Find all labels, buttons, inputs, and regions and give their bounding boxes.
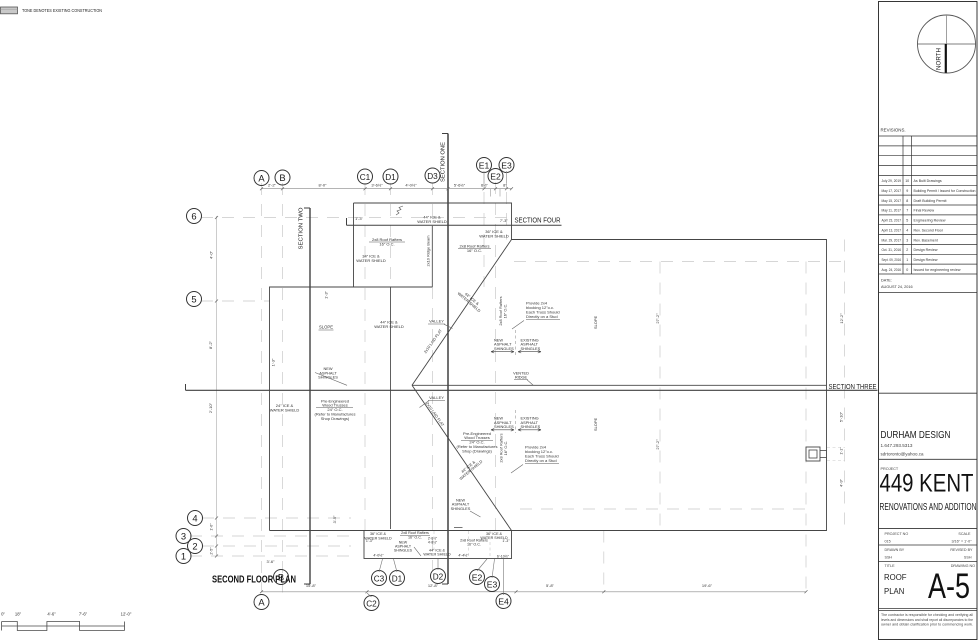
svg-text:SHINGLES: SHINGLES [494, 424, 514, 429]
grid marker A top [254, 171, 269, 186]
svg-text:4'-4½": 4'-4½" [458, 554, 469, 558]
svg-text:6'-10½": 6'-10½" [497, 554, 510, 558]
grid row 2 (dashed) [202, 545, 351, 547]
grid line D1 (dashed top) [390, 183, 392, 287]
svg-text:12'-0": 12'-0" [121, 612, 132, 617]
grid marker A bottom [254, 595, 269, 610]
svg-text:449 KENT: 449 KENT [880, 470, 974, 498]
grid marker D1 bottom [390, 571, 405, 586]
svg-text:SECTION FOUR: SECTION FOUR [515, 216, 561, 225]
svg-text:B: B [279, 172, 285, 183]
svg-text:C3: C3 [374, 574, 385, 583]
svg-text:PROJECT NO: PROJECT NO [885, 532, 909, 536]
svg-text:VALLEY: VALLEY [429, 395, 444, 400]
grid marker E3 top [499, 158, 514, 173]
svg-text:27'-2": 27'-2" [655, 439, 660, 450]
svg-text:2: 2 [192, 540, 197, 551]
title block outer border [879, 2, 978, 640]
svg-text:SSH: SSH [964, 556, 972, 560]
svg-text:SECTION TWO: SECTION TWO [299, 207, 305, 249]
svg-text:SECTION THREE: SECTION THREE [829, 382, 877, 391]
svg-text:4'-0": 4'-0" [209, 250, 214, 259]
strip interior dashes [433, 531, 435, 558]
svg-text:SHINGLES: SHINGLES [394, 548, 413, 552]
bottom eave strip [364, 531, 512, 559]
svg-text:3: 3 [906, 238, 908, 242]
grid marker C1 [358, 169, 373, 184]
svg-text:Directly on a Stud: Directly on a Stud [526, 314, 558, 319]
break squiggle [396, 206, 403, 215]
svg-text:A: A [258, 596, 265, 607]
44 ice note on lower diagonal [455, 455, 483, 481]
bottom marker leaders [379, 559, 383, 572]
svg-text:WATER SHIELD: WATER SHIELD [479, 234, 509, 239]
svg-text:July 29, 2019: July 29, 2019 [882, 179, 902, 183]
svg-text:SCALE: SCALE [958, 532, 971, 536]
svg-text:D3: D3 [427, 172, 438, 181]
svg-text:REVISED BY: REVISED BY [950, 548, 973, 552]
svg-text:7: 7 [906, 209, 908, 213]
svg-text:REVISIONS.: REVISIONS. [881, 128, 906, 133]
svg-text:1'-3": 1'-3" [324, 291, 329, 299]
svg-text:2'-5": 2'-5" [210, 547, 214, 555]
svg-text:8'-0": 8'-0" [319, 182, 328, 187]
svg-text:DURHAM DESIGN: DURHAM DESIGN [881, 429, 951, 441]
left wing outline [270, 287, 433, 531]
svg-text:Building Permit / Issued for C: Building Permit / Issued for Constructio… [914, 189, 976, 193]
svg-text:5: 5 [191, 293, 196, 304]
svg-text:SHINGLES: SHINGLES [494, 346, 514, 351]
svg-text:3'-5": 3'-5" [332, 515, 337, 523]
svg-text:1: 1 [906, 258, 908, 262]
grid marker E1 [477, 158, 492, 173]
svg-text:4'-9": 4'-9" [839, 478, 844, 487]
svg-text:C1: C1 [360, 173, 371, 182]
svg-text:5: 5 [906, 219, 908, 223]
svg-text:4: 4 [192, 512, 197, 523]
svg-text:1'-6": 1'-6" [210, 523, 214, 531]
svg-text:SHINGLES: SHINGLES [521, 346, 541, 351]
svg-text:Final Review: Final Review [914, 209, 935, 213]
svg-text:D2: D2 [433, 572, 444, 581]
svg-text:7'-3": 7'-3" [500, 218, 508, 223]
svg-text:Oct. 31, 2016: Oct. 31, 2016 [882, 248, 902, 252]
svg-text:1'-1": 1'-1" [840, 447, 844, 455]
dashed horizontals in big rect [514, 261, 845, 263]
svg-text:B: B [278, 571, 284, 582]
grid line E2 (dashed) [495, 182, 497, 531]
grid marker D2 [431, 569, 446, 584]
grid line D3 (dashed) [432, 183, 434, 226]
svg-text:E3: E3 [501, 161, 512, 170]
grid line E3 (dashed) [506, 171, 508, 240]
svg-text:DATE:: DATE: [881, 279, 892, 283]
svg-text:2x10 Ridge Beam: 2x10 Ridge Beam [426, 236, 431, 267]
graphic scale bar [2, 622, 125, 631]
svg-text:E3: E3 [487, 580, 498, 589]
section three line [186, 389, 878, 391]
svg-text:WATER SHIELD: WATER SHIELD [374, 324, 404, 329]
svg-text:PLAN: PLAN [884, 587, 904, 596]
svg-text:Rev. Basement: Rev. Basement [914, 238, 938, 242]
svg-text:SHINGLES: SHINGLES [451, 506, 471, 511]
grid row 3 (dashed) [190, 535, 351, 537]
svg-text:Rev. Second Floor: Rev. Second Floor [914, 228, 944, 232]
svg-text:DRAWN BY: DRAWN BY [885, 548, 905, 552]
grid marker 5 [187, 292, 202, 307]
grid marker B bottom [274, 570, 289, 585]
grid row 6 (dashed) [201, 217, 511, 219]
grid marker 6 [187, 209, 202, 224]
svg-text:8'-2": 8'-2" [208, 340, 213, 349]
svg-text:4'-0½": 4'-0½" [373, 554, 384, 558]
interior dashed verticals big rect [659, 262, 661, 531]
svg-text:5'-8": 5'-8" [546, 583, 555, 588]
svg-text:2'-2": 2'-2" [268, 182, 277, 187]
svg-text:9: 9 [906, 189, 908, 193]
svg-text:4'-8½": 4'-8½" [428, 541, 438, 545]
grid marker E4 [496, 594, 511, 609]
svg-text:May 17, 2017: May 17, 2017 [882, 189, 902, 193]
svg-text:6: 6 [191, 210, 196, 221]
grid line C1 (dashed) [364, 183, 366, 531]
ridge beam vertical [431, 226, 433, 287]
stamp box divider [879, 392, 978, 394]
svg-text:E1: E1 [479, 161, 490, 170]
svg-text:5'-6½": 5'-6½" [454, 182, 466, 187]
svg-text:015: 015 [885, 539, 891, 543]
svg-text:Sept. 09, 2016: Sept. 09, 2016 [882, 258, 902, 262]
svg-text:May 15, 2017: May 15, 2017 [882, 199, 902, 203]
svg-text:NORTH: NORTH [936, 48, 943, 70]
svg-text:VALLEY: VALLEY [429, 319, 444, 324]
44 ice note on upper diagonal [457, 288, 485, 314]
svg-text:18": 18" [15, 612, 22, 617]
grid marker B top [275, 170, 290, 185]
svg-text:SSH: SSH [885, 556, 893, 560]
svg-text:16" O.C.: 16" O.C. [503, 441, 508, 456]
svg-text:2'-10": 2'-10" [208, 402, 213, 413]
svg-text:1'-3": 1'-3" [502, 539, 510, 543]
svg-text:Shop (Drawings): Shop (Drawings) [462, 448, 492, 453]
svg-text:2: 2 [906, 248, 908, 252]
svg-text:TONE DENOTES EXISTING CONSTRUC: TONE DENOTES EXISTING CONSTRUCTION [22, 8, 102, 13]
svg-text:15'-8": 15'-8" [306, 583, 317, 588]
svg-text:WATER SHIELD: WATER SHIELD [356, 258, 386, 263]
svg-text:WATER SHIELD: WATER SHIELD [417, 219, 447, 224]
svg-text:RENOVATIONS AND ADDITION: RENOVATIONS AND ADDITION [880, 501, 977, 513]
grid row 1 (dashed) [190, 555, 351, 557]
grid marker 3 [176, 529, 191, 544]
svg-text:1: 1 [181, 550, 186, 561]
grid row 5 (dashed) [201, 300, 270, 302]
grid marker C3 [372, 571, 387, 586]
svg-text:Design Review: Design Review [914, 248, 938, 252]
svg-text:3'-6": 3'-6" [267, 559, 276, 564]
svg-text:1.647.293.5313: 1.647.293.5313 [881, 443, 913, 448]
grid line B (dashed) [282, 183, 284, 593]
svg-text:Directly on a Stud: Directly on a Stud [525, 458, 557, 463]
svg-text:4: 4 [906, 228, 908, 232]
svg-text:Shop Drawings): Shop Drawings) [321, 416, 350, 421]
svg-text:4'-6": 4'-6" [47, 612, 56, 617]
bottom dimension line [262, 591, 807, 593]
svg-text:D1: D1 [392, 574, 403, 583]
svg-text:3'-6½": 3'-6½" [371, 182, 383, 187]
chimney detail [806, 447, 820, 461]
svg-text:Issued for engineering review: Issued for engineering review [914, 268, 961, 272]
grid marker 4 [188, 511, 203, 526]
svg-text:TITLE: TITLE [885, 564, 896, 568]
interior wall line D1 [390, 287, 392, 529]
tick above strip [454, 527, 463, 529]
ridge line [412, 384, 827, 386]
svg-text:owner and obtain clarification: owner and obtain clarification prior to … [881, 621, 973, 626]
svg-text:Mar. 29, 2017: Mar. 29, 2017 [882, 238, 902, 242]
section two line [309, 208, 311, 584]
grid line A (dashed) [261, 183, 263, 593]
svg-text:4'-0½": 4'-0½" [405, 182, 417, 187]
chimney dim dash [827, 447, 845, 449]
svg-text:SLOPE: SLOPE [319, 325, 333, 330]
svg-text:16" O.C.: 16" O.C. [379, 242, 394, 247]
svg-text:5'-10": 5'-10" [839, 411, 844, 422]
svg-text:1'-3": 1'-3" [366, 539, 374, 543]
svg-text:Draft Building Permit: Draft Building Permit [914, 199, 947, 203]
E marker leaders [489, 189, 491, 197]
revision table [879, 136, 978, 274]
roof outline: big right rectangle [270, 240, 827, 531]
grid row 4 (dashed) [202, 517, 351, 519]
north arrow [918, 15, 976, 73]
grid marker 1 [176, 549, 191, 564]
svg-text:10: 10 [905, 179, 909, 183]
hip valley upper diagonal [412, 240, 512, 386]
svg-text:A: A [258, 172, 265, 183]
svg-text:6½": 6½" [481, 182, 489, 187]
svg-text:19'-6": 19'-6" [702, 583, 713, 588]
svg-text:27'-2": 27'-2" [655, 313, 660, 324]
section one line [447, 134, 449, 585]
svg-text:D1: D1 [385, 173, 396, 182]
legend tone box [1, 7, 18, 14]
svg-text:16" O.C.: 16" O.C. [502, 304, 507, 319]
svg-text:AUGUST 24, 2016: AUGUST 24, 2016 [881, 285, 913, 289]
svg-text:sdrtoronto@yahoo.ca: sdrtoronto@yahoo.ca [881, 452, 924, 458]
svg-text:7'-6": 7'-6" [79, 612, 88, 617]
svg-text:As Built Drawings: As Built Drawings [914, 179, 942, 183]
svg-text:C2: C2 [366, 599, 377, 608]
left vertical dimension line [216, 216, 218, 556]
section four line [347, 224, 562, 226]
svg-text:SHINGLES: SHINGLES [521, 424, 541, 429]
svg-text:0": 0" [1, 612, 5, 617]
grid marker E3 bottom [485, 577, 500, 592]
svg-text:SHINGLES: SHINGLES [318, 375, 338, 380]
svg-text:1'-3": 1'-3" [271, 358, 276, 366]
hip valley lower diagonal [412, 385, 512, 530]
svg-text:Design Review: Design Review [914, 258, 938, 262]
svg-text:May 11, 2017: May 11, 2017 [882, 209, 902, 213]
svg-text:E2: E2 [490, 172, 501, 181]
svg-text:16" O.C.: 16" O.C. [408, 535, 422, 539]
svg-text:1'-3": 1'-3" [355, 216, 363, 221]
svg-text:8: 8 [906, 199, 908, 203]
svg-text:SLOPE: SLOPE [593, 316, 598, 330]
svg-text:ROOF: ROOF [884, 573, 907, 582]
roof outline: top rectangle [354, 203, 512, 287]
top dimension line [262, 188, 512, 190]
svg-text:0: 0 [906, 268, 908, 272]
svg-text:E2: E2 [472, 573, 483, 582]
svg-text:12'-2": 12'-2" [839, 313, 844, 324]
grid marker D1 top [383, 169, 398, 184]
svg-text:3: 3 [181, 530, 186, 541]
new/existing boundary dashes [515, 330, 517, 356]
svg-text:A-5: A-5 [928, 567, 970, 606]
svg-text:WATER SHIELD: WATER SHIELD [270, 407, 300, 412]
grid marker D3 [425, 168, 440, 183]
grid line E1 (dashed) [483, 171, 485, 287]
svg-text:April 23, 2017: April 23, 2017 [882, 219, 902, 223]
grid marker E2 top [488, 169, 503, 184]
svg-text:E4: E4 [498, 597, 509, 606]
grid marker E2 bottom [470, 570, 485, 585]
grid marker 2 [188, 539, 203, 554]
svg-text:WATER SHIELD: WATER SHIELD [423, 553, 451, 557]
svg-text:April 13, 2017: April 13, 2017 [882, 228, 902, 232]
grid marker C2 [364, 596, 379, 611]
svg-text:16" O.C.: 16" O.C. [467, 543, 481, 547]
svg-text:SLOPE: SLOPE [593, 418, 598, 432]
svg-text:SECTION ONE: SECTION ONE [441, 141, 447, 182]
svg-text:RIDGE: RIDGE [515, 375, 528, 380]
svg-text:3/16" = 1'-0": 3/16" = 1'-0" [951, 539, 972, 543]
svg-text:Engineering Review: Engineering Review [914, 219, 946, 223]
svg-text:Aug. 24, 2016: Aug. 24, 2016 [882, 268, 902, 272]
